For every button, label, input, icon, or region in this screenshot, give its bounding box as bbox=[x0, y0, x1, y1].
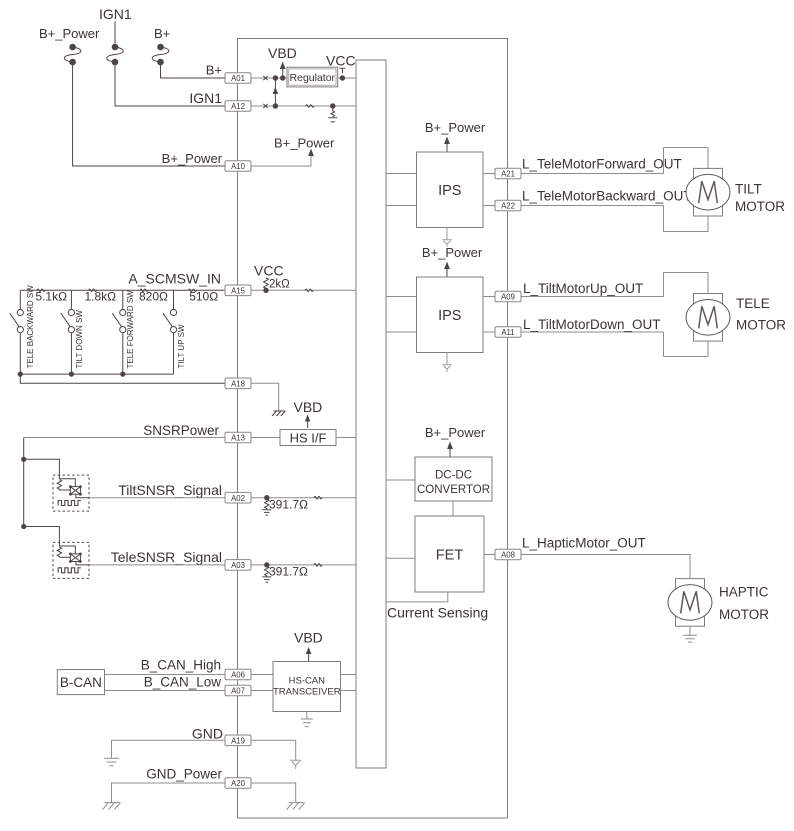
svg-text:GND_Power: GND_Power bbox=[146, 767, 222, 782]
wire inner box to DC-DC bbox=[386, 479, 415, 481]
svg-text:L_TiltMotorUp_OUT: L_TiltMotorUp_OUT bbox=[523, 281, 643, 296]
chassis ground (GND_Power left) bbox=[103, 803, 121, 810]
svg-text:820Ω: 820Ω bbox=[139, 290, 168, 304]
svg-text:A22: A22 bbox=[501, 202, 515, 211]
inline resistor on switch bus 4 bbox=[189, 289, 197, 292]
svg-text:B+_Power: B+_Power bbox=[425, 425, 486, 440]
svg-text:TELE BACKWARD SW: TELE BACKWARD SW bbox=[26, 285, 35, 369]
wire bottom bus to pin A18 bbox=[20, 374, 225, 383]
junction dot A02 resistor tap bbox=[264, 495, 269, 500]
wire sensor2 out to pin A03 bbox=[89, 564, 225, 566]
wire feed to sensor tele position bbox=[24, 527, 60, 547]
arrow ground (IPS2) bbox=[442, 353, 451, 372]
wire IPS1 to pin A22 bbox=[483, 205, 664, 207]
wire A15 to inner box bbox=[251, 289, 356, 291]
inline resistor on switch bus 3 bbox=[140, 289, 148, 292]
svg-text:IGN1: IGN1 bbox=[189, 90, 222, 106]
B+_Power arrow (IPS1) bbox=[444, 137, 450, 152]
switch SW4 bbox=[163, 290, 177, 374]
svg-text:A02: A02 bbox=[231, 494, 245, 503]
wire A20 to right chassis ground bbox=[251, 783, 296, 802]
svg-text:L_HapticMotor_OUT: L_HapticMotor_OUT bbox=[522, 536, 646, 551]
pin A07 bbox=[225, 685, 251, 696]
wire DC-DC to FET bbox=[452, 501, 454, 516]
wire tilt motor loop top bbox=[664, 148, 709, 174]
junction dot 2k tap bbox=[263, 288, 268, 293]
wire B_CAN_High to pin A06 bbox=[105, 674, 226, 676]
svg-text:IPS: IPS bbox=[438, 308, 461, 324]
svg-text:B+_Power: B+_Power bbox=[162, 151, 223, 166]
wire IPS2 to pin A11 bbox=[483, 331, 664, 333]
wire A19 to left ground bbox=[112, 740, 226, 758]
link wire A01-A12 rows with up arrow bbox=[273, 78, 279, 106]
wire FET to pin A08 bbox=[484, 554, 521, 556]
svg-text:MOTOR: MOTOR bbox=[735, 199, 785, 214]
junction dot sensor1 tap bbox=[21, 457, 26, 462]
pin A06 bbox=[225, 669, 251, 680]
wire switch bus to pin A15 bbox=[20, 289, 225, 291]
switch ladder bottom bus bbox=[20, 373, 173, 375]
svg-text:5.1kΩ: 5.1kΩ bbox=[35, 290, 67, 304]
VBD arrow (transceiver) bbox=[306, 647, 312, 661]
svg-text:TILT: TILT bbox=[735, 182, 762, 197]
wire A18 to chassis ground bbox=[251, 383, 279, 410]
svg-text:A15: A15 bbox=[231, 287, 246, 296]
pin A02 bbox=[225, 492, 251, 503]
svg-text:B+_Power: B+_Power bbox=[39, 26, 100, 41]
switch SW2 bbox=[61, 290, 75, 374]
switch SW1 bbox=[10, 290, 24, 374]
svg-text:HS I/F: HS I/F bbox=[290, 431, 327, 446]
svg-text:A11: A11 bbox=[501, 328, 514, 337]
wire transceiver to inner box (high) bbox=[341, 674, 357, 676]
wire IPS2 to pin A09 bbox=[483, 296, 664, 298]
block IPS U2 bbox=[417, 152, 484, 228]
ground (transceiver) bbox=[301, 712, 313, 727]
svg-text:A03: A03 bbox=[231, 561, 245, 570]
VBD arrow (top) bbox=[280, 62, 286, 79]
wire A07 to transceiver bbox=[251, 690, 273, 692]
inline resistor on switch bus 1 bbox=[37, 289, 45, 292]
wire A13 to HS I/F bbox=[251, 437, 280, 439]
svg-text:1.8kΩ: 1.8kΩ bbox=[85, 290, 117, 304]
regulator U1 bbox=[287, 67, 338, 87]
pin A13 bbox=[225, 432, 251, 443]
pin A01 bbox=[225, 73, 251, 84]
control module outer box bbox=[238, 39, 508, 819]
fuse IGN1 bbox=[107, 22, 124, 66]
pin A21 bbox=[495, 168, 521, 179]
inline resistor on A02 wire bbox=[314, 496, 322, 499]
microcontroller inner box bbox=[356, 60, 386, 768]
wire B+ fuse to pin A01 bbox=[161, 62, 226, 78]
svg-text:VBD: VBD bbox=[294, 399, 323, 415]
junction dots A01 row bbox=[273, 75, 278, 80]
resistor 391.7 ohm (A02) bbox=[265, 498, 269, 510]
wire A02 to inner box bbox=[251, 497, 356, 499]
svg-text:FET: FET bbox=[436, 548, 464, 564]
svg-text:VBD: VBD bbox=[268, 45, 297, 61]
B+_Power arrow (IPS2) bbox=[444, 262, 450, 277]
wire IGN1 fuse to pin A12 bbox=[115, 62, 225, 106]
svg-text:A01: A01 bbox=[231, 74, 245, 83]
pin A10 bbox=[225, 161, 251, 172]
ground (haptic motor) bbox=[683, 626, 697, 642]
inline resistor on A15 wire bbox=[305, 289, 313, 292]
svg-text:HS-CAN: HS-CAN bbox=[289, 676, 326, 687]
wire A08 to haptic motor bbox=[521, 555, 690, 579]
svg-text:B+: B+ bbox=[154, 26, 170, 41]
pin A22 bbox=[495, 200, 521, 211]
chassis ground (GND_Power right) bbox=[287, 803, 305, 810]
wire B_CAN_Low to pin A07 bbox=[105, 690, 226, 692]
switch SW3 bbox=[112, 290, 126, 374]
wire transceiver to inner box (low) bbox=[341, 690, 357, 692]
wire A01 to Regulator bbox=[251, 77, 287, 79]
motor TILT MOTOR M1 bbox=[686, 168, 730, 216]
B+_Power arrow (DC-DC) bbox=[447, 442, 453, 457]
svg-text:TILT UP SW: TILT UP SW bbox=[177, 324, 186, 368]
ground (A12 row) bbox=[328, 106, 337, 122]
wire IPS1 to pin A21 bbox=[483, 173, 664, 175]
sensor supply bus bbox=[23, 438, 25, 527]
svg-text:GND: GND bbox=[192, 726, 223, 742]
wire SNSRPower to pin A13 bbox=[24, 437, 225, 439]
pin A18 bbox=[225, 378, 251, 389]
svg-text:MOTOR: MOTOR bbox=[719, 607, 769, 622]
svg-text:A21: A21 bbox=[501, 170, 515, 179]
svg-text:L_TiltMotorDown_OUT: L_TiltMotorDown_OUT bbox=[523, 317, 661, 332]
svg-text:A08: A08 bbox=[501, 551, 515, 560]
svg-text:A13: A13 bbox=[231, 434, 245, 443]
junction dot VCC out bbox=[340, 75, 345, 80]
pin A03 bbox=[225, 560, 251, 571]
wire current sensing bbox=[386, 592, 448, 602]
VCC tick bbox=[339, 68, 345, 73]
svg-text:B+_Power: B+_Power bbox=[274, 136, 335, 151]
svg-text:MOTOR: MOTOR bbox=[736, 318, 786, 333]
svg-text:Current Sensing: Current Sensing bbox=[387, 605, 488, 621]
block HS-CAN TRANSCEIVER bbox=[273, 662, 341, 712]
pin A20 bbox=[225, 778, 251, 789]
svg-text:IPS: IPS bbox=[438, 183, 461, 199]
wire A06 to transceiver bbox=[251, 674, 273, 676]
svg-text:B_CAN_Low: B_CAN_Low bbox=[144, 675, 222, 690]
pin A08 bbox=[495, 549, 521, 560]
svg-text:A20: A20 bbox=[231, 779, 246, 788]
svg-text:VBD: VBD bbox=[294, 630, 323, 646]
wire A12 to inner box bbox=[251, 105, 356, 107]
block IPS U3 bbox=[417, 277, 484, 353]
motor HAPTIC MOTOR M3 bbox=[668, 579, 712, 627]
wire inner box to IPS1 (in1) bbox=[386, 173, 417, 175]
pin A11 bbox=[495, 327, 521, 338]
motor TELE MOTOR M2 bbox=[686, 294, 730, 342]
wire inner box to FET bbox=[386, 557, 415, 559]
wire HS I/F to inner box bbox=[336, 437, 356, 439]
svg-text:A18: A18 bbox=[231, 380, 245, 389]
junction dot A12 row bbox=[273, 103, 278, 108]
block HS I/F bbox=[280, 430, 336, 446]
wire tele motor loop bottom bbox=[664, 332, 709, 357]
wire tilt motor loop bottom bbox=[664, 206, 709, 232]
arrow B+_Power (A10) bbox=[308, 149, 314, 157]
svg-text:TeleSNSR_Signal: TeleSNSR_Signal bbox=[111, 549, 222, 565]
svg-text:B-CAN: B-CAN bbox=[60, 675, 102, 690]
svg-text:A12: A12 bbox=[231, 102, 245, 111]
svg-text:A_SCMSW_IN: A_SCMSW_IN bbox=[128, 271, 221, 287]
fuse B+ bbox=[152, 44, 169, 66]
wire inner box to IPS2 (in2) bbox=[386, 331, 417, 333]
svg-text:510Ω: 510Ω bbox=[189, 290, 218, 304]
wire A03 to inner box bbox=[251, 564, 356, 566]
svg-text:DC-DC: DC-DC bbox=[435, 470, 472, 482]
inline resistor on A03 wire bbox=[314, 564, 322, 567]
wire inner box to IPS2 (in1) bbox=[386, 296, 417, 298]
ground (A02 resistor) bbox=[262, 510, 271, 515]
svg-text:HAPTIC: HAPTIC bbox=[719, 585, 769, 600]
svg-text:TILT DOWN SW: TILT DOWN SW bbox=[75, 310, 84, 369]
svg-text:B_CAN_High: B_CAN_High bbox=[141, 658, 221, 673]
svg-text:IGN1: IGN1 bbox=[99, 6, 132, 22]
sensor tele position bbox=[53, 542, 89, 578]
pin A09 bbox=[495, 291, 521, 302]
svg-text:TRANSCEIVER: TRANSCEIVER bbox=[273, 687, 341, 698]
fuse B+_Power bbox=[64, 44, 81, 66]
arrow ground (GND right) bbox=[290, 760, 301, 769]
pin A19 bbox=[225, 735, 251, 746]
ground (A03 resistor) bbox=[262, 577, 271, 582]
wire feed to sensor tilt position bbox=[24, 459, 60, 478]
x-mark on A12 wire bbox=[263, 104, 267, 108]
resistor 2k ohm (vertical) bbox=[264, 278, 269, 290]
junction dot A12 gnd tap bbox=[330, 103, 335, 108]
svg-text:TELE: TELE bbox=[736, 296, 770, 311]
svg-text:VCC: VCC bbox=[254, 263, 284, 279]
connector B-CAN bbox=[57, 670, 104, 695]
svg-text:A10: A10 bbox=[231, 162, 246, 171]
junction dot bottom bus x=122.8 bbox=[120, 372, 125, 377]
sensor tilt position bbox=[53, 475, 89, 511]
pin A12 bbox=[225, 101, 251, 112]
svg-text:391.7Ω: 391.7Ω bbox=[269, 498, 308, 512]
svg-text:SNSRPower: SNSRPower bbox=[143, 423, 219, 438]
junction dot bottom bus x=20.3 bbox=[18, 372, 23, 377]
block FET Q1 bbox=[415, 516, 484, 592]
wire A10 to B+_Power arrow bbox=[251, 154, 311, 166]
svg-text:B+_Power: B+_Power bbox=[425, 120, 486, 135]
svg-text:TELE FORWARD SW: TELE FORWARD SW bbox=[126, 290, 135, 369]
resistor 391.7 ohm (A03) bbox=[265, 565, 269, 577]
pin A15 bbox=[225, 285, 251, 296]
chassis ground (A18) bbox=[272, 411, 285, 416]
junction dot A03 resistor tap bbox=[264, 562, 269, 567]
svg-text:2kΩ: 2kΩ bbox=[269, 279, 290, 291]
svg-text:A06: A06 bbox=[231, 671, 245, 680]
wire B+_Power fuse to pin A10 bbox=[73, 62, 225, 166]
junction dot sensor2 tap bbox=[21, 524, 26, 529]
VBD arrow (HS I/F) bbox=[305, 415, 311, 429]
inline resistor on A12 wire bbox=[306, 105, 314, 108]
block DC-DC CONVERTOR bbox=[415, 457, 492, 501]
svg-text:A07: A07 bbox=[231, 687, 245, 696]
wire Regulator to inner box bbox=[338, 77, 356, 79]
svg-text:A09: A09 bbox=[501, 293, 515, 302]
svg-text:A19: A19 bbox=[231, 737, 245, 746]
svg-text:TiltSNSR_Signal: TiltSNSR_Signal bbox=[118, 482, 222, 498]
svg-text:L_TeleMotorBackward_OUT: L_TeleMotorBackward_OUT bbox=[522, 189, 692, 204]
svg-text:Regulator: Regulator bbox=[290, 72, 336, 84]
wire sensor1 out to pin A02 bbox=[89, 497, 225, 499]
arrow ground (IPS1) bbox=[442, 228, 451, 247]
inline resistor on switch bus 2 bbox=[89, 289, 97, 292]
svg-text:391.7Ω: 391.7Ω bbox=[269, 565, 308, 579]
junction dot bottom bus x=71.4 bbox=[69, 372, 74, 377]
svg-text:B+_Power: B+_Power bbox=[422, 245, 483, 260]
wire A19 to right ground bbox=[251, 740, 296, 760]
wire inner box to IPS1 (in2) bbox=[386, 205, 417, 207]
wire A20 to left chassis ground bbox=[112, 783, 226, 802]
x-mark on A01 wire bbox=[263, 76, 267, 80]
ground (GND left) bbox=[104, 758, 119, 765]
svg-text:B+: B+ bbox=[206, 63, 222, 78]
svg-text:L_TeleMotorForward_OUT: L_TeleMotorForward_OUT bbox=[522, 157, 682, 172]
svg-text:VCC: VCC bbox=[326, 53, 356, 69]
wire tele motor loop top bbox=[664, 273, 709, 297]
svg-text:CONVERTOR: CONVERTOR bbox=[417, 484, 490, 496]
